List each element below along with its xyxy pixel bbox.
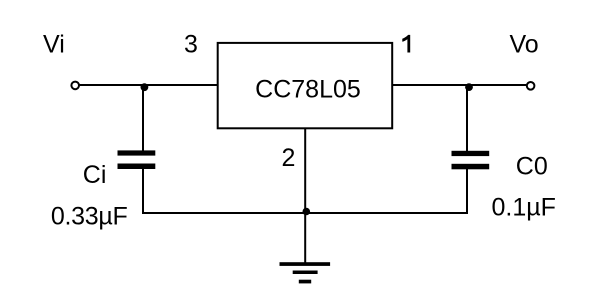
- wire output: pin 1 to terminal: [392, 84, 526, 86]
- wire pin 2 to ground: [304, 127, 306, 263]
- svg-text:Vi: Vi: [43, 30, 65, 58]
- wire ground rail (bottom): [142, 212, 468, 214]
- ground symbol: [280, 262, 331, 283]
- svg-text:Vo: Vo: [510, 31, 539, 59]
- svg-text:Ci: Ci: [83, 161, 107, 189]
- wire input: terminal to pin 3: [80, 84, 219, 86]
- IC U1 CC78L05 (box): [218, 43, 393, 128]
- svg-text:0.33µF: 0.33µF: [51, 202, 128, 230]
- svg-text:CC78L05: CC78L05: [255, 75, 361, 103]
- wire C0 top stub: [466, 85, 468, 152]
- terminal output (open circle): [527, 82, 535, 90]
- pin 1 label: [402, 35, 410, 53]
- svg-text:3: 3: [184, 31, 198, 59]
- svg-text:0.1µF: 0.1µF: [492, 194, 556, 222]
- wire Ci bottom stub: [142, 169, 144, 215]
- terminal input (open circle): [71, 82, 79, 90]
- node junction ground rail: [303, 208, 311, 216]
- wire Ci top stub: [142, 85, 144, 151]
- wire C0 bottom stub: [466, 169, 468, 214]
- svg-text:2: 2: [282, 144, 296, 172]
- capacitor C0 (plates): [452, 151, 490, 170]
- node junction input/Ci: [141, 83, 149, 91]
- capacitor Ci (plates): [118, 150, 156, 169]
- node junction output/C0: [465, 83, 473, 91]
- svg-text:C0: C0: [516, 152, 548, 180]
